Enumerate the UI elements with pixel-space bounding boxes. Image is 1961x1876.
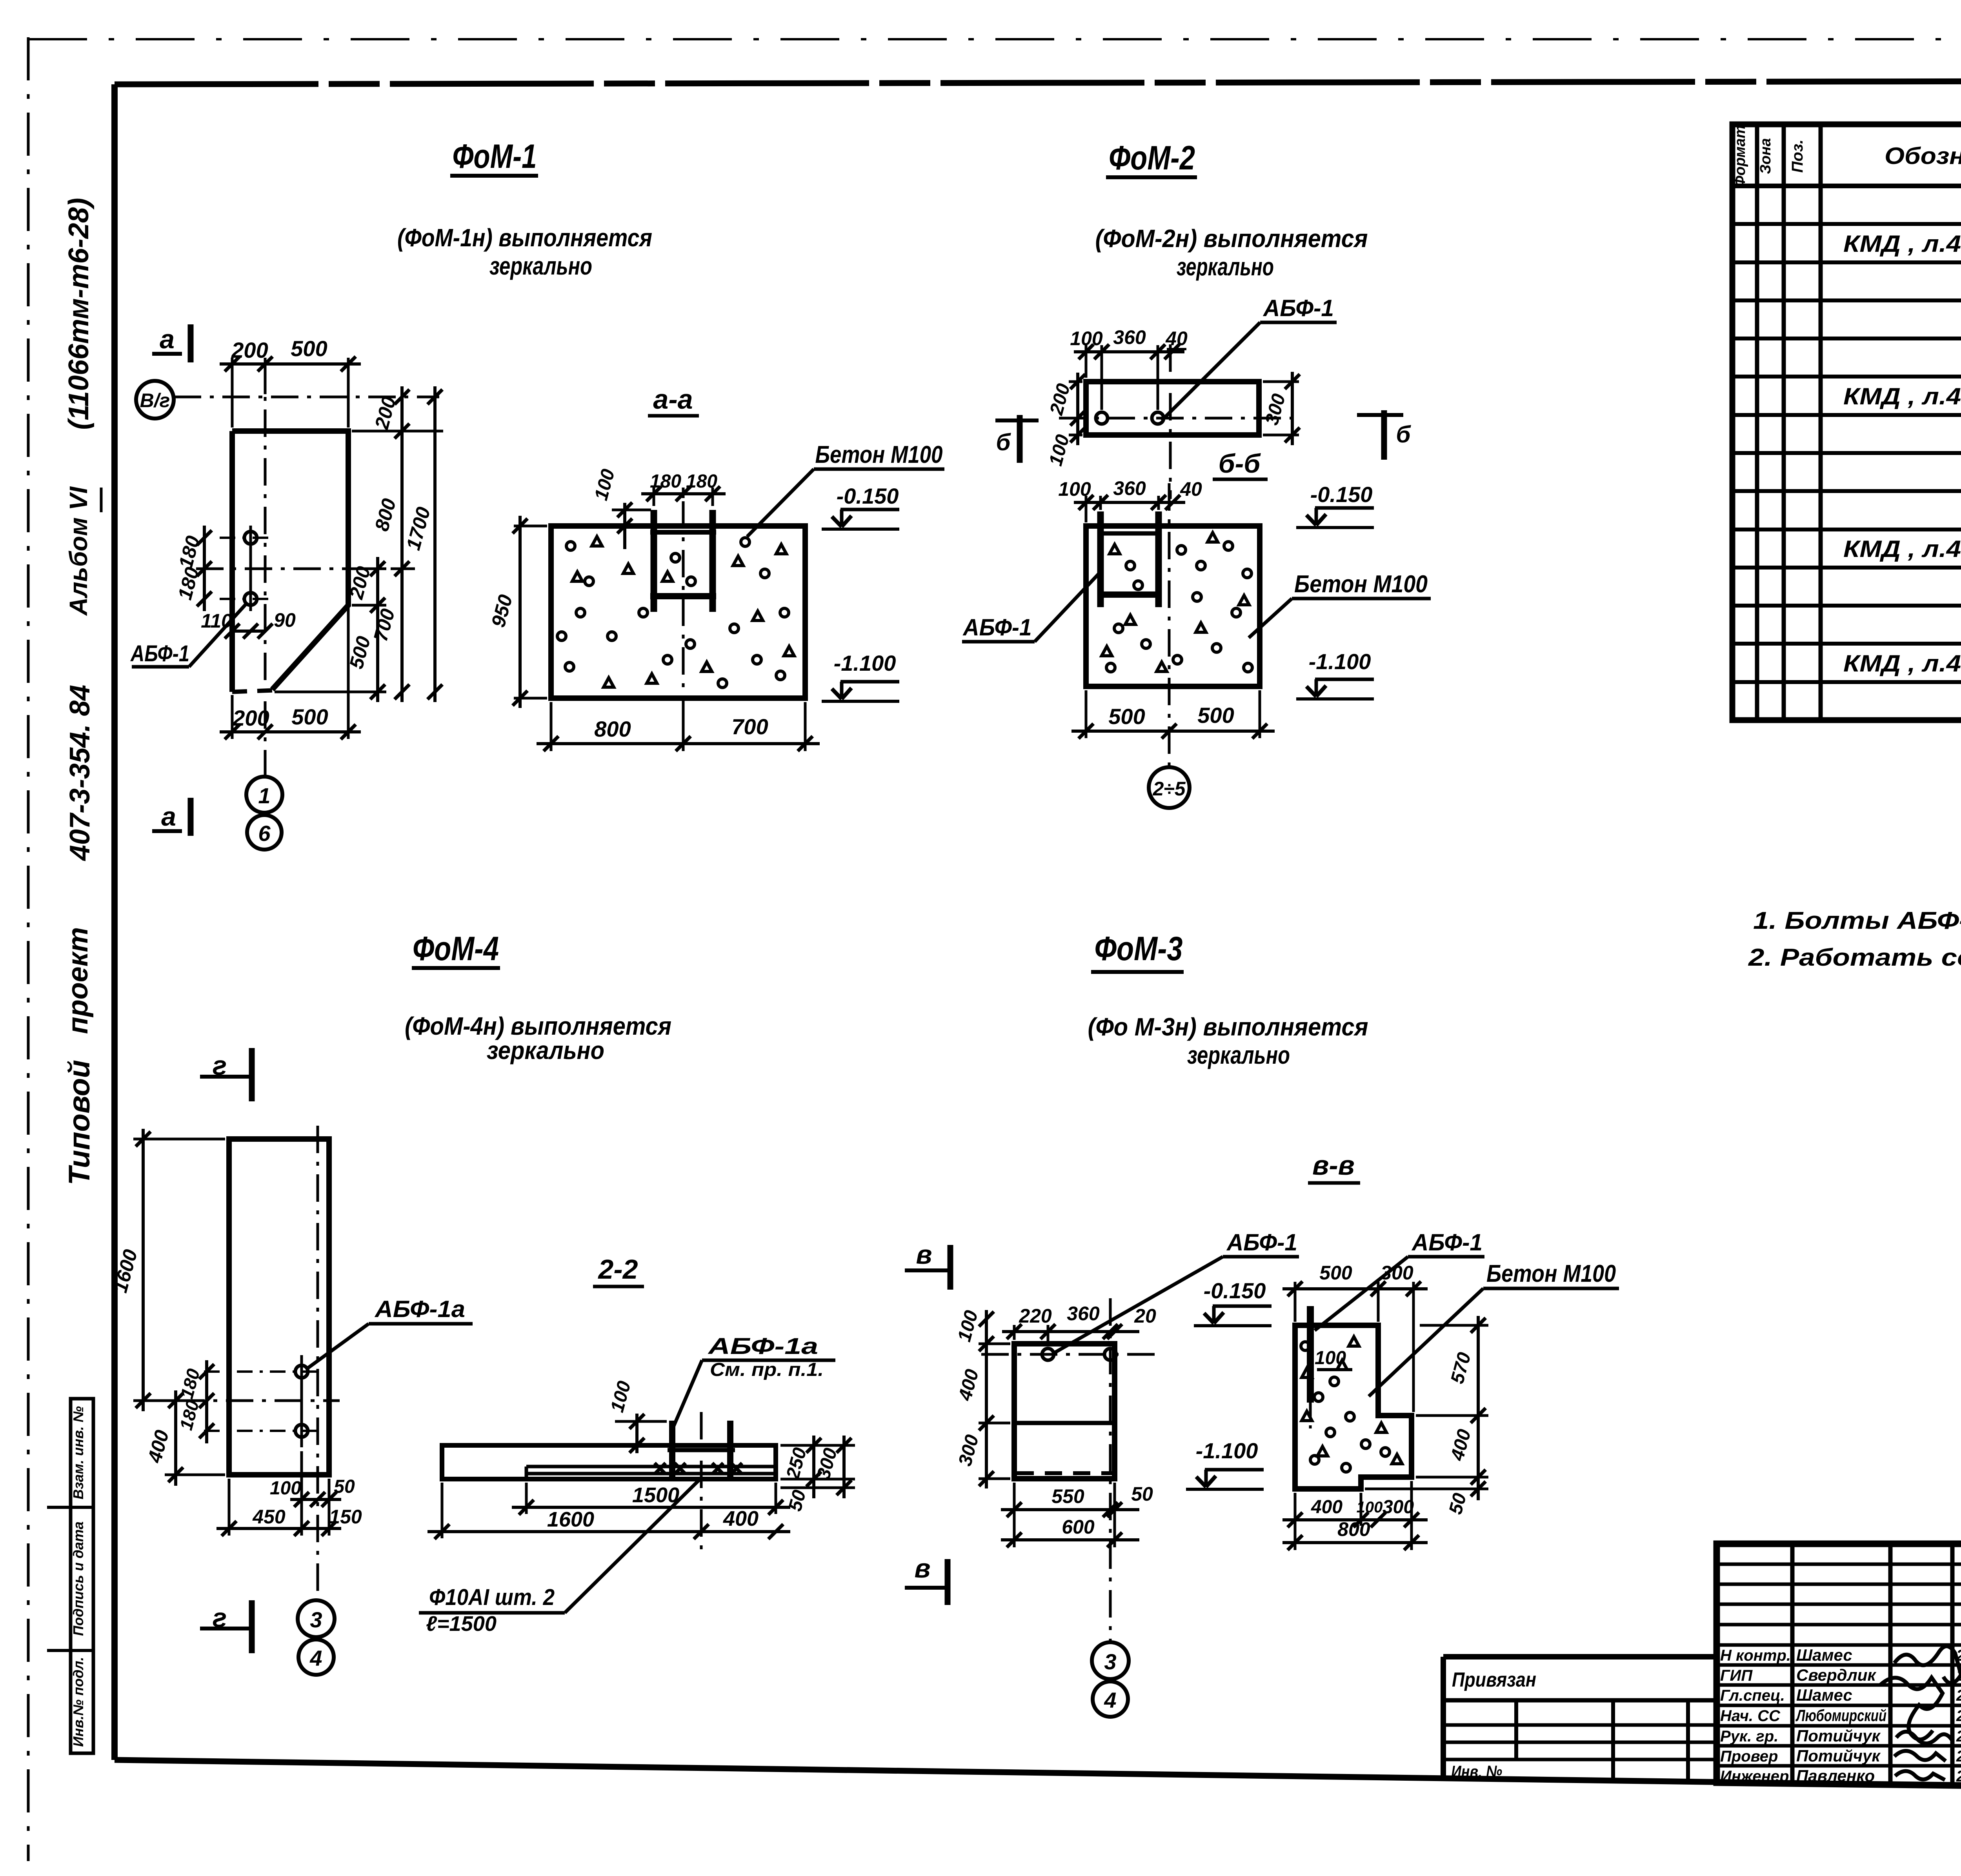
svg-text:КМД , л.4: КМД , л.4 bbox=[1843, 536, 1961, 562]
table header bottom line bbox=[1732, 184, 1961, 188]
svg-text:220: 220 bbox=[1019, 1305, 1052, 1327]
centerline bbox=[682, 501, 685, 706]
right dim chain B 200/800/700 bbox=[400, 386, 404, 702]
inner step line bbox=[1014, 1421, 1115, 1425]
svg-text:Типовой: Типовой bbox=[63, 1060, 96, 1185]
svg-text:3: 3 bbox=[1104, 1649, 1116, 1674]
svg-text:Любомирский: Любомирский bbox=[1795, 1706, 1886, 1725]
right dims 250/300/50 bbox=[780, 1444, 855, 1447]
bolts bbox=[1096, 412, 1108, 424]
svg-text:100: 100 bbox=[270, 1478, 301, 1499]
top dim 500/300 bbox=[1294, 1282, 1297, 1322]
plan outline FoM-1 bbox=[232, 431, 348, 690]
svg-text:Инв.№ подл.: Инв.№ подл. bbox=[70, 1657, 86, 1747]
svg-text:300: 300 bbox=[1381, 1262, 1413, 1284]
svg-text:АБФ-1: АБФ-1 bbox=[1411, 1229, 1483, 1256]
anchor pocket bbox=[651, 510, 657, 612]
svg-text:ℓ=1500: ℓ=1500 bbox=[426, 1612, 497, 1636]
svg-text:407-3-354. 84: 407-3-354. 84 bbox=[64, 685, 96, 861]
dim 1500 bbox=[525, 1483, 528, 1514]
svg-text:200: 200 bbox=[231, 338, 268, 362]
svg-text:Рук. гр.: Рук. гр. bbox=[1720, 1728, 1778, 1745]
main frame bottom edge bbox=[115, 1760, 1961, 1793]
anchor bolts bbox=[669, 1421, 675, 1478]
svg-text:б: б bbox=[1396, 421, 1411, 448]
anchor bolt bbox=[1307, 1306, 1314, 1403]
svg-text:КМД , л.4: КМД , л.4 bbox=[1843, 650, 1961, 677]
svg-text:ГИП: ГИП bbox=[1720, 1667, 1753, 1684]
dim 180/180 over pocket bbox=[653, 488, 655, 506]
svg-text:a: a bbox=[160, 324, 175, 354]
plan centerline vertical bbox=[264, 361, 267, 776]
pocket bbox=[1097, 511, 1104, 607]
svg-text:ФоМ-1: ФоМ-1 bbox=[453, 138, 537, 175]
svg-text:24.11: 24.11 bbox=[1956, 1728, 1961, 1745]
aggregate bbox=[1301, 1342, 1310, 1350]
svg-text:зеркально: зеркально bbox=[1177, 253, 1274, 281]
svg-text:100: 100 bbox=[1357, 1499, 1383, 1516]
svg-text:Бетон М100: Бетон М100 bbox=[815, 441, 943, 468]
svg-text:Формат: Формат bbox=[1732, 125, 1748, 187]
svg-text:700: 700 bbox=[731, 714, 768, 739]
svg-text:360: 360 bbox=[1113, 326, 1146, 348]
svg-text:100: 100 bbox=[1058, 478, 1091, 500]
svg-text:400: 400 bbox=[723, 1507, 759, 1530]
signature grid verticals bbox=[1790, 1544, 1795, 1783]
svg-text:800: 800 bbox=[1337, 1518, 1370, 1540]
svg-text:24.11: 24.11 bbox=[1956, 1707, 1961, 1725]
svg-text:Поз.: Поз. bbox=[1789, 140, 1806, 173]
svg-text:Потийчук: Потийчук bbox=[1796, 1727, 1881, 1745]
svg-text:1600: 1600 bbox=[547, 1508, 594, 1531]
top dimension 200/500 bbox=[231, 358, 234, 428]
svg-text:Шамес: Шамес bbox=[1796, 1686, 1852, 1704]
svg-text:180: 180 bbox=[686, 471, 717, 492]
svg-text:в-в: в-в bbox=[1312, 1150, 1355, 1181]
svg-text:500: 500 bbox=[1108, 704, 1145, 729]
right dim 300 bbox=[1263, 380, 1299, 383]
left dim 200/100 bbox=[1069, 380, 1082, 383]
centerline vertical bbox=[1109, 1298, 1112, 1641]
svg-text:2-2: 2-2 bbox=[597, 1254, 638, 1285]
svg-text:500: 500 bbox=[291, 704, 328, 729]
svg-text:25.11: 25.11 bbox=[1956, 1687, 1961, 1704]
svg-text:-0.150: -0.150 bbox=[837, 484, 899, 508]
svg-text:110: 110 bbox=[201, 610, 232, 632]
svg-text:24.11: 24.11 bbox=[1956, 1768, 1961, 1785]
table outer frame bbox=[1732, 124, 1961, 720]
svg-text:Провер: Провер bbox=[1720, 1748, 1778, 1765]
svg-text:500: 500 bbox=[1319, 1262, 1352, 1284]
right dim chain A 200/500 bbox=[355, 568, 386, 570]
svg-text:зеркально: зеркально bbox=[1187, 1041, 1290, 1069]
plan FoM-4 outline bbox=[229, 1139, 329, 1475]
svg-text:зеркально: зеркально bbox=[489, 252, 592, 280]
slab outline bbox=[442, 1445, 776, 1479]
svg-text:40: 40 bbox=[1180, 478, 1202, 500]
bottom dims 100/50 and 450/150 bbox=[228, 1479, 231, 1536]
svg-text:4: 4 bbox=[309, 1646, 322, 1670]
svg-text:Зона: Зона bbox=[1757, 138, 1774, 174]
aggregate bbox=[1177, 546, 1186, 554]
right dim 570/400/50 bbox=[1416, 1414, 1488, 1417]
dim 100 bolt projection bbox=[615, 1420, 667, 1423]
bolt axis bbox=[1059, 417, 1291, 420]
svg-text:1: 1 bbox=[258, 783, 270, 808]
left dim 100/400/300 bbox=[979, 1343, 1010, 1345]
svg-text:6: 6 bbox=[258, 821, 271, 846]
top dim 100/360/40 bbox=[1085, 496, 1088, 522]
svg-text:АБФ-1а: АБФ-1а bbox=[374, 1296, 465, 1322]
svg-text:Подпись и дата: Подпись и дата bbox=[70, 1521, 86, 1636]
main frame top edge bbox=[115, 80, 1961, 84]
svg-text:КМД , л.4: КМД , л.4 bbox=[1843, 383, 1961, 409]
table column lines bbox=[1755, 124, 1759, 720]
svg-text:2÷5: 2÷5 bbox=[1152, 778, 1186, 800]
left dimension 180/180 bbox=[203, 526, 206, 611]
position bubbles 1 / 6 bbox=[246, 777, 282, 813]
svg-text:50: 50 bbox=[334, 1476, 355, 1497]
svg-text:б-б: б-б bbox=[1219, 449, 1261, 479]
svg-text:1500: 1500 bbox=[632, 1483, 679, 1507]
hidden dashed line bbox=[1017, 1471, 1112, 1475]
svg-text:АБФ-1: АБФ-1 bbox=[130, 641, 189, 666]
top thin dashed edge line bbox=[28, 38, 1961, 40]
bottom-left stamp strip bbox=[71, 1399, 93, 1753]
svg-text:-0.150: -0.150 bbox=[1310, 482, 1373, 507]
grid bubble V/g bbox=[136, 381, 174, 419]
x marks bbox=[655, 1463, 666, 1474]
svg-text:100: 100 bbox=[1315, 1348, 1346, 1368]
signature squiggles bbox=[1894, 1646, 1961, 1683]
left dim 950 bbox=[514, 525, 547, 528]
section mark b (left) bbox=[995, 419, 1039, 422]
svg-text:Альбом VI: Альбом VI bbox=[64, 486, 93, 617]
bolt axes dashes bbox=[204, 1370, 318, 1373]
svg-text:Инженер: Инженер bbox=[1720, 1768, 1789, 1785]
signature grid horizontals bbox=[1717, 1563, 1961, 1566]
svg-text:См. пр. п.1.: См. пр. п.1. bbox=[710, 1359, 824, 1380]
svg-text:Инв. №: Инв. № bbox=[1451, 1762, 1502, 1781]
svg-text:-1.100: -1.100 bbox=[1196, 1438, 1258, 1463]
bolts bbox=[1042, 1348, 1054, 1360]
svg-text:(11066тм-т6-28): (11066тм-т6-28) bbox=[63, 198, 95, 429]
main frame left edge bbox=[111, 84, 118, 1760]
plan bolt axis horizontal bbox=[196, 568, 415, 570]
bottom dims 400/100/300 and 800 bbox=[1294, 1493, 1297, 1550]
svg-text:ФоМ-2: ФоМ-2 bbox=[1109, 139, 1195, 177]
bottom dims 550/50 and 600 bbox=[1013, 1483, 1016, 1547]
right dim chain C 1700 bbox=[433, 386, 437, 702]
svg-text:1. Болты АБФ-1ª изготовить и: 1. Болты АБФ-1ª изготовить из болтов АБФ… bbox=[1753, 907, 1961, 934]
svg-text:a-a: a-a bbox=[653, 384, 693, 415]
svg-text:АБФ-1: АБФ-1 bbox=[962, 614, 1032, 640]
dim 1600/400 bbox=[441, 1483, 444, 1538]
svg-text:20: 20 bbox=[1134, 1305, 1156, 1327]
svg-text:АБФ-1: АБФ-1 bbox=[1262, 295, 1334, 321]
svg-text:50: 50 bbox=[1131, 1483, 1153, 1505]
svg-text:Обозначение: Обозначение bbox=[1885, 143, 1961, 169]
left dim 180/180 (bolts) bbox=[205, 1360, 208, 1443]
svg-text:зеркально: зеркально bbox=[487, 1036, 604, 1064]
base plate bbox=[526, 1465, 776, 1468]
centerline bbox=[1168, 483, 1171, 768]
svg-text:(ФоМ-1н) выполняется: (ФоМ-1н) выполняется bbox=[397, 224, 652, 252]
svg-text:б: б bbox=[996, 429, 1011, 455]
svg-text:КМД , л.4: КМД , л.4 bbox=[1843, 231, 1961, 257]
svg-text:проект: проект bbox=[62, 927, 94, 1034]
svg-text:200: 200 bbox=[232, 706, 269, 730]
svg-text:800: 800 bbox=[594, 717, 631, 741]
svg-text:40: 40 bbox=[1165, 328, 1188, 349]
svg-text:-0.150: -0.150 bbox=[1204, 1278, 1266, 1303]
svg-text:Бетон М100: Бетон М100 bbox=[1294, 571, 1428, 598]
svg-text:2. Работать совместно с лист: 2. Работать совместно с листом 22. bbox=[1748, 944, 1961, 971]
bolt circles bbox=[244, 531, 257, 544]
svg-text:90: 90 bbox=[274, 609, 296, 631]
svg-text:Потийчук: Потийчук bbox=[1796, 1747, 1881, 1765]
svg-text:в: в bbox=[914, 1554, 930, 1583]
svg-text:Павленко: Павленко bbox=[1796, 1767, 1875, 1785]
aggregate bbox=[566, 542, 575, 550]
axis horizontal bbox=[177, 1399, 340, 1402]
svg-text:Бетон М100: Бетон М100 bbox=[1486, 1260, 1616, 1287]
top dim 220/360/20 bbox=[1013, 1325, 1016, 1340]
svg-text:В/г: В/г bbox=[140, 389, 170, 411]
svg-text:АБФ-1а: АБФ-1а bbox=[707, 1334, 818, 1359]
svg-text:Гл.спец.: Гл.спец. bbox=[1720, 1687, 1785, 1704]
svg-text:ФоМ-3: ФоМ-3 bbox=[1095, 930, 1183, 968]
title block outer bbox=[1717, 1544, 1961, 1792]
svg-text:a: a bbox=[161, 802, 176, 832]
svg-text:400: 400 bbox=[1311, 1497, 1343, 1518]
plan FoM-3 outline bbox=[1014, 1344, 1115, 1479]
svg-text:450: 450 bbox=[252, 1506, 286, 1528]
bottom dim 500/500 bbox=[1085, 690, 1088, 738]
dim 100 (left of pocket) bbox=[612, 509, 651, 511]
centerline bbox=[700, 1412, 703, 1551]
left dim 1600/400 bbox=[133, 1138, 225, 1141]
svg-text:Взам. инв. №: Взам. инв. № bbox=[70, 1406, 86, 1499]
bubbles 3/4 bbox=[1092, 1642, 1129, 1679]
svg-text:360: 360 bbox=[1067, 1303, 1100, 1325]
svg-text:в: в bbox=[916, 1240, 932, 1270]
section mark b (right) bbox=[1357, 413, 1403, 417]
privyazan box bbox=[1443, 1657, 1717, 1780]
svg-text:180: 180 bbox=[650, 471, 681, 492]
bolts bbox=[295, 1365, 308, 1378]
svg-text:АБФ-1: АБФ-1 bbox=[1226, 1229, 1297, 1256]
svg-text:500: 500 bbox=[291, 336, 327, 361]
bottom dimension 200/500 bbox=[231, 695, 234, 739]
block v-v L-shape bbox=[1295, 1325, 1412, 1489]
bolt axis bbox=[981, 1353, 1163, 1356]
svg-text:600: 600 bbox=[1062, 1516, 1095, 1538]
svg-text:300: 300 bbox=[1383, 1497, 1414, 1518]
svg-text:24.11: 24.11 bbox=[1956, 1748, 1961, 1765]
top dim 100/360/40 bbox=[1085, 345, 1088, 378]
block b-b bbox=[1086, 526, 1260, 686]
centerline vertical bbox=[317, 1126, 319, 1598]
table row lines bbox=[1732, 222, 1961, 226]
svg-text:(ФоМ-2н) выполняется: (ФоМ-2н) выполняется bbox=[1095, 224, 1368, 253]
svg-text:500: 500 bbox=[1197, 703, 1234, 728]
svg-text:Ф10АI шт. 2: Ф10АI шт. 2 bbox=[429, 1585, 555, 1610]
svg-text:360: 360 bbox=[1113, 477, 1146, 499]
svg-text:-1.100: -1.100 bbox=[1309, 649, 1371, 674]
svg-text:3: 3 bbox=[310, 1607, 322, 1632]
svg-text:Нач. СС: Нач. СС bbox=[1720, 1707, 1781, 1725]
svg-text:550: 550 bbox=[1051, 1485, 1084, 1507]
svg-text:150: 150 bbox=[329, 1506, 362, 1528]
bubble 2:5 bbox=[1149, 767, 1190, 808]
svg-text:-1.100: -1.100 bbox=[834, 651, 896, 675]
outer left dash-dot margin line bbox=[27, 37, 30, 1861]
plan bar FoM-2 bbox=[1086, 382, 1259, 435]
svg-text:Свердлик: Свердлик bbox=[1796, 1666, 1876, 1684]
dimension 110/90 bbox=[232, 630, 265, 633]
svg-text:(Фо М-3н) выполняется: (Фо М-3н) выполняется bbox=[1088, 1013, 1368, 1041]
svg-text:ФоМ-4: ФоМ-4 bbox=[413, 930, 499, 968]
grid axis line bbox=[174, 396, 439, 398]
cut centerline bbox=[1169, 344, 1172, 499]
bubbles 3/4 bbox=[298, 1600, 335, 1637]
svg-text:Н контр.: Н контр. bbox=[1720, 1647, 1791, 1664]
svg-text:4: 4 bbox=[1104, 1688, 1116, 1712]
svg-text:100: 100 bbox=[1070, 328, 1103, 349]
svg-text:Привязан: Привязан bbox=[1452, 1669, 1536, 1691]
bottom dim 800/700 bbox=[550, 702, 553, 751]
svg-text:Шамес: Шамес bbox=[1796, 1646, 1852, 1664]
concrete block outline bbox=[551, 526, 805, 698]
